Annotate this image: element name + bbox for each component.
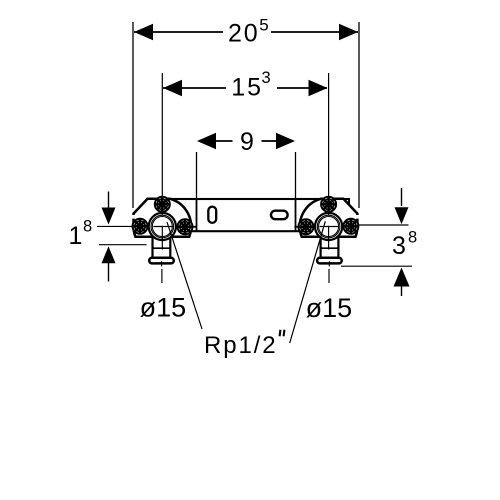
extension line left (9) — [196, 152, 198, 199]
arrowhead left (15.3) — [163, 80, 182, 96]
reference line upper (1.8) — [97, 225, 134, 227]
screw outer — [343, 219, 358, 234]
socket ring outer — [315, 213, 342, 240]
extension line right (15.3) = centerline over right fitting — [328, 73, 330, 196]
centerline left fitting vertical — [161, 196, 164, 283]
pipe insertion-depth line — [321, 247, 339, 249]
rail boundary left — [196, 199, 198, 231]
svg-text:Rp1/2: Rp1/2 — [204, 332, 278, 359]
reference line lower (1.8) — [99, 244, 147, 246]
pipe insertion-depth line — [153, 247, 171, 249]
screw top — [155, 197, 170, 212]
extension line left (20.5) — [132, 22, 134, 208]
arrowhead right (9), points outward — [276, 133, 295, 149]
dimension 1.8 lower arrow — [102, 246, 116, 281]
rail slot (vertical) — [208, 207, 216, 223]
leader line right (Rp1/2) — [290, 221, 326, 343]
pipe left wall — [151, 236, 153, 257]
extension line left (15.3) = centerline over left fitting — [161, 73, 163, 196]
right fitting (mirror of left) — [294, 197, 359, 264]
socket ring middle — [151, 215, 174, 238]
svg-text:ø15: ø15 — [306, 293, 353, 323]
pipe right wall — [319, 236, 321, 257]
reference line lower (3.8) — [341, 265, 412, 267]
centerline dash inside left socket — [153, 226, 173, 228]
mounting plate — [300, 199, 358, 237]
svg-text:15: 15 — [231, 74, 263, 102]
screw inner — [298, 219, 313, 234]
arrowhead right (15.3) — [309, 80, 328, 96]
dimension text 15.3 — [231, 69, 270, 102]
arrowhead right (20.5) — [339, 24, 358, 40]
dimension line 9 — [216, 140, 277, 142]
extension line right (20.5) — [358, 22, 360, 208]
dimension line 15.3 — [163, 87, 327, 89]
plate tip line — [294, 226, 299, 228]
centerline right fitting vertical — [328, 196, 331, 283]
centerline dash inside right socket — [320, 226, 340, 228]
dimension 3.8 upper arrow — [395, 188, 409, 224]
plate edge notch — [356, 215, 359, 219]
reference line upper (3.8) — [358, 224, 409, 226]
svg-text:8: 8 — [83, 218, 92, 236]
svg-text:1: 1 — [69, 222, 83, 250]
extension line right (9) — [295, 152, 297, 199]
rail slot (horizontal oval) — [271, 211, 288, 220]
dimension text 20.5 — [228, 15, 269, 47]
pipe mouth opening — [321, 235, 337, 240]
screw inner — [178, 219, 193, 234]
socket ring middle — [317, 215, 340, 238]
screw outer — [133, 219, 148, 234]
socket ring outer — [149, 213, 176, 240]
svg-text:9: 9 — [240, 128, 254, 156]
plate edge notch — [132, 215, 135, 219]
svg-text:8: 8 — [408, 228, 417, 246]
pipe mouth opening — [154, 235, 170, 240]
press collar — [317, 258, 342, 264]
screw top — [321, 197, 336, 212]
pipe left wall — [337, 236, 339, 257]
label inch double-prime — [280, 330, 285, 337]
dimension text 1.8 — [69, 218, 93, 251]
mounting rail — [147, 199, 349, 231]
svg-text:3: 3 — [392, 232, 406, 260]
socket ring inner — [152, 217, 172, 237]
dimension line 20.5 — [134, 31, 358, 33]
dimension text 3.8 — [392, 228, 417, 260]
svg-text:ø15: ø15 — [140, 293, 187, 323]
arrowhead left (9), points outward — [197, 133, 216, 149]
svg-text:3: 3 — [262, 69, 271, 87]
dimension 1.8 upper arrow — [102, 192, 116, 225]
press collar — [149, 258, 174, 264]
left fitting — [132, 197, 197, 264]
socket ring inner — [319, 217, 339, 237]
arrowhead left (20.5) — [134, 24, 153, 40]
rail boundary right — [295, 199, 297, 231]
leader line left (Rp1/2) — [167, 222, 202, 329]
dimension 3.8 lower arrow — [394, 268, 410, 297]
mounting plate — [134, 199, 192, 237]
svg-text:20: 20 — [228, 20, 259, 48]
plate tip line — [191, 226, 196, 228]
pipe right wall — [169, 236, 171, 257]
svg-text:5: 5 — [259, 15, 268, 34]
